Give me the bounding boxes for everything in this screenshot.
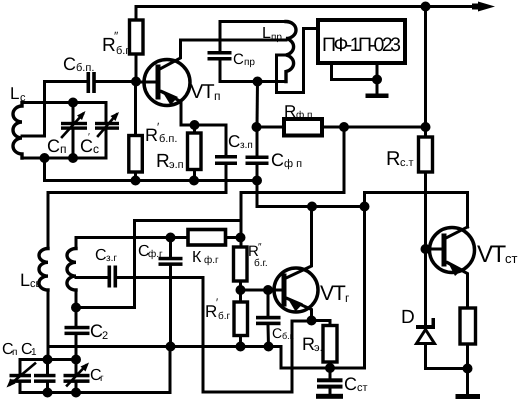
wire line A (supply to bias chain) (241, 127, 344, 193)
wire diode to emitter resistor node (426, 367, 468, 370)
svg-text:С: С (63, 54, 76, 74)
wire IF tank bottom line (220, 80, 286, 83)
svg-text:VT: VT (190, 81, 214, 103)
svg-text:″: ″ (258, 242, 262, 253)
svg-text:К: К (192, 249, 202, 266)
svg-text:R: R (386, 148, 400, 170)
resistor Rf.g (188, 230, 241, 246)
resistor R'b.p (129, 82, 143, 181)
node Lg bottom dot (71, 303, 81, 313)
svg-text:2: 2 (102, 330, 108, 342)
capacitor Cp variable (input) (61, 103, 87, 159)
node supply column dot (421, 122, 431, 132)
wire filter bottom leads (332, 63, 378, 94)
wire VTg base line (241, 289, 285, 292)
svg-text:г: г (100, 373, 104, 384)
svg-text:ф.г: ф.г (148, 249, 163, 260)
node filter ground dot (372, 75, 382, 85)
filter PF-1P-023 box (318, 20, 405, 63)
wire right top line (365, 193, 468, 228)
transistor VTp (136, 40, 195, 125)
capacitor Cz.p (215, 155, 237, 193)
wire bias chain vertical (240, 193, 243, 248)
capacitor block bottom line (20, 347, 170, 393)
wire IF tank top line (220, 20, 286, 23)
svg-text:ф п: ф п (284, 158, 302, 170)
node VTg emitter dot (307, 316, 317, 326)
wire Lsv lower (47, 290, 50, 360)
resistor Re (312, 321, 338, 369)
svg-text:э.п: э.п (169, 159, 184, 171)
capacitor Cf.g (159, 238, 183, 347)
node VTg collector dot (307, 202, 317, 212)
node VTp emitter dot (190, 120, 200, 130)
wire Lpr tap to filter input (277, 29, 319, 93)
svg-text:з.п: з.п (240, 140, 253, 151)
node Re bottom dot (325, 363, 335, 373)
svg-text:б.г.: б.г. (254, 258, 268, 269)
capacitor block top line (20, 358, 76, 361)
node Rfg right dot (236, 233, 246, 243)
node VTg base node dot (236, 285, 246, 295)
svg-text:э.: э. (314, 342, 323, 354)
svg-text:С: С (272, 325, 282, 341)
resistor VTst emitter (460, 308, 476, 369)
svg-text:R: R (284, 102, 296, 121)
svg-text:VT: VT (320, 282, 346, 305)
capacitor Cf.p (246, 127, 269, 181)
inductor Lc (13, 103, 22, 159)
wire upper ground rail (45, 179, 258, 182)
capacitor Cp variable (het) (7, 360, 36, 393)
svg-text:С: С (271, 150, 284, 170)
svg-text:п: п (214, 89, 221, 103)
svg-text:ф.г: ф.г (204, 255, 219, 266)
resistor R'b.g (234, 290, 248, 347)
wire Cbp drop to coil tap (43, 82, 46, 137)
wire emitter to Cz.p (195, 125, 227, 155)
node line B right dot (360, 202, 370, 212)
wire to supply column (344, 126, 426, 129)
svg-text:′: ′ (88, 132, 90, 143)
svg-text:L: L (10, 84, 19, 103)
wire supply top rail (136, 5, 482, 8)
svg-text:D: D (401, 307, 415, 328)
svg-text:ст: ст (357, 382, 368, 394)
node Rfp right dot (339, 122, 349, 132)
node emitter resistor bottom dot (463, 364, 473, 374)
svg-text:п: п (12, 347, 17, 358)
svg-text:VT: VT (477, 241, 507, 268)
wire IF node drop (256, 82, 260, 128)
ground bar (stabilizer) (456, 369, 481, 400)
svg-text:пр: пр (244, 57, 255, 68)
capacitor Cpr (208, 22, 232, 82)
wire Czp to Lsv top line (48, 191, 226, 194)
svg-text:с.т: с.т (400, 157, 414, 169)
wire R''bp bottom lead (135, 54, 138, 82)
wire right column vertical (line B to bottom) (363, 193, 366, 369)
capacitor C1 fixed (34, 360, 56, 393)
ground bar (filter) (366, 94, 389, 99)
diode D zener (416, 318, 435, 369)
node Cbg top dot (263, 285, 273, 295)
wire Lg bottom to riser (76, 221, 241, 308)
svg-text:б.г: б.г (218, 311, 231, 322)
node supply junction dot (421, 2, 431, 12)
wire line 346 (Lsv to right loop) (48, 347, 365, 369)
node dots on line 346 (166, 342, 176, 352)
svg-text:R: R (156, 151, 170, 172)
svg-text:ст: ст (505, 251, 518, 266)
svg-text:С: С (344, 374, 357, 394)
transistor VTst (426, 227, 475, 308)
svg-text:з.г: з.г (106, 253, 117, 264)
svg-text:С: С (47, 136, 60, 156)
svg-text:пр: пр (271, 32, 282, 43)
wire Czg loop down to VTg emitter (203, 278, 312, 393)
node VTp base dot (131, 77, 141, 87)
wire input tank bottom line (22, 157, 106, 160)
transistor VTg (268, 207, 318, 321)
svg-text:С: С (95, 247, 107, 264)
svg-text:б.г.: б.г. (282, 331, 294, 341)
inductor Lg heterodyne (67, 238, 76, 308)
capacitor Cc variable (input) (95, 103, 119, 159)
wire supply column vertical (424, 7, 427, 138)
wire input tank top line (22, 101, 106, 104)
node VTst base dot (421, 244, 431, 254)
svg-text:С: С (80, 136, 93, 156)
resistor R''b.g (234, 247, 248, 290)
svg-text:С: С (228, 132, 240, 151)
svg-text:ф.п: ф.п (296, 110, 312, 121)
capacitor Cz.g (76, 266, 203, 288)
supply arrow (472, 2, 495, 12)
svg-text:б.п.: б.п. (159, 133, 177, 145)
svg-text:С: С (233, 51, 244, 68)
wire Lc tap (22, 135, 45, 138)
svg-text:с: с (93, 142, 99, 156)
resistor Re.p (188, 125, 202, 181)
node Cfg top dot (166, 233, 176, 243)
capacitor Cst (316, 368, 343, 399)
svg-text:б.п: б.п (116, 45, 131, 57)
node IF bottom dot (253, 77, 263, 87)
svg-text:г: г (345, 291, 350, 305)
wire VTp collector tap to Lpr (181, 39, 287, 42)
resistor Rs.t (419, 137, 433, 172)
svg-text:с: с (20, 92, 26, 104)
resistor Rf.p (257, 119, 345, 136)
resistor R''b.p (130, 20, 144, 54)
wire R''bp top lead (135, 7, 138, 21)
wire het tank top line (76, 236, 188, 239)
capacitor C'b.g (256, 290, 281, 347)
inductor Lsv (39, 249, 48, 291)
node tank bottom dots (40, 153, 50, 163)
svg-text:′: ′ (216, 297, 218, 309)
inductor Lpr (286, 22, 296, 82)
svg-text:1: 1 (31, 347, 37, 358)
svg-text:б.п.: б.п. (76, 62, 94, 74)
svg-text:ПФ-1П-023: ПФ-1П-023 (322, 34, 401, 56)
node tank top dot (68, 98, 78, 108)
wire rail drop to line B (257, 181, 364, 207)
wire Rst bottom lead to zener (424, 172, 427, 325)
capacitor Cg variable (64, 360, 90, 393)
svg-text:п: п (60, 142, 67, 156)
svg-text:L: L (20, 270, 30, 290)
capacitor C2 (65, 308, 90, 360)
svg-text:L: L (262, 25, 271, 42)
wire drop to upper rail (43, 158, 46, 181)
svg-text:св: св (30, 278, 42, 290)
capacitor Cb.p coupling (45, 72, 137, 93)
node Rfp left dot (252, 122, 262, 132)
wire Lsv left branch (47, 193, 50, 249)
